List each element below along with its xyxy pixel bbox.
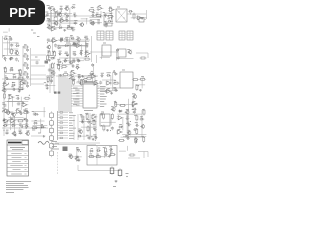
junction dot: [136, 103, 137, 104]
ground G22: [78, 159, 81, 162]
resistor R25: [58, 63, 60, 70]
capacitor C5: [66, 14, 69, 18]
label L42: [24, 53, 27, 55]
wire net W74: [78, 75, 80, 82]
label L138: [32, 129, 35, 131]
wire net W16: [105, 23, 113, 25]
label L158: [119, 123, 122, 125]
label L128: [5, 122, 8, 124]
IC left labels: [73, 88, 79, 105]
wire rail E1: [2, 127, 48, 129]
capacitor C34: [73, 53, 77, 56]
label L87: [57, 64, 60, 65]
wire net W78: [8, 98, 10, 110]
label L164: [125, 136, 128, 137]
label L90: [71, 70, 74, 72]
wire net W24: [4, 48, 18, 50]
transistor Q14: [2, 108, 6, 113]
capacitor C58: [25, 119, 29, 122]
capacitor C50: [114, 89, 118, 92]
label L156: [134, 114, 136, 116]
transistor Q20: [25, 131, 29, 136]
capacitor C21: [26, 75, 29, 79]
label L134: [26, 130, 28, 132]
resistor R34: [81, 79, 83, 86]
capacitor C62: [33, 113, 37, 116]
label L31: [108, 18, 111, 20]
resistor R26: [61, 65, 68, 67]
wire net W42: [101, 48, 103, 60]
label L103: [78, 75, 81, 76]
wire net W60: [59, 66, 61, 71]
label L154: [142, 109, 145, 111]
junction dot: [72, 44, 73, 45]
label L163: [134, 129, 137, 130]
label L81: [21, 80, 24, 82]
op-amp U2: [50, 27, 57, 31]
junction dot: [91, 136, 92, 137]
wire net W23: [3, 54, 20, 56]
resistor R11: [23, 64, 30, 66]
transistor Q8: [46, 45, 50, 50]
junction dot: [24, 119, 25, 120]
wire net W64: [102, 79, 116, 81]
label L92: [91, 70, 93, 72]
resistor R55: [88, 156, 95, 158]
junction dot: [93, 21, 94, 22]
transistor Q9: [76, 37, 80, 42]
wire net W101: [110, 118, 112, 126]
wire net W66: [112, 72, 114, 90]
resistor R4: [95, 15, 102, 17]
resistor R8: [11, 48, 13, 55]
capacitor C10: [71, 28, 75, 31]
capacitor C42: [50, 79, 53, 83]
wire net W29: [48, 40, 55, 42]
label L111: [16, 95, 19, 97]
junction dot: [19, 128, 20, 129]
label L4: [66, 6, 69, 7]
wire net W45: [136, 53, 148, 58]
junction dot: [66, 15, 67, 16]
capacitor C30: [73, 44, 77, 47]
op-amp U15: [19, 81, 26, 85]
junction dot: [62, 63, 63, 64]
PDF badge: [0, 0, 45, 25]
wire net W49: [6, 79, 25, 81]
wire net W98: [89, 119, 91, 130]
diode D23: [24, 125, 29, 127]
wire net W113: [89, 156, 111, 158]
diode D24: [33, 122, 38, 124]
header J3: [119, 31, 125, 40]
label L129: [12, 123, 15, 124]
wire net W100: [101, 121, 116, 123]
label L151: [101, 114, 103, 115]
capacitor C29: [85, 37, 89, 40]
transistor Q22: [125, 110, 129, 115]
label L106: [72, 80, 75, 81]
label L125: [23, 109, 26, 111]
label L62: [64, 52, 67, 53]
capacitor C8: [65, 19, 69, 22]
label L130: [19, 124, 22, 125]
left rail wire: [3, 93, 5, 136]
capacitor C12: [97, 21, 101, 24]
label L6: [45, 11, 48, 13]
resistor R30: [139, 78, 146, 80]
label L78: [20, 75, 22, 77]
resistor R35: [4, 93, 6, 100]
transistor Q11: [2, 88, 6, 93]
wire net W53: [46, 76, 54, 78]
pad blob 1: [54, 92, 57, 94]
label L166: [141, 136, 143, 138]
label L177: [111, 151, 113, 153]
connector pad 3: [45, 61, 49, 64]
junction dot: [83, 24, 84, 25]
label L149: [93, 135, 96, 136]
label L28: [103, 12, 105, 14]
ground G2: [92, 22, 95, 25]
label L8: [58, 12, 61, 13]
op-amp U32: [116, 130, 123, 134]
junction dot: [51, 10, 52, 11]
title block: [7, 140, 29, 176]
resistor R33: [72, 79, 74, 86]
wire net W108: [126, 113, 128, 132]
label L12: [53, 20, 56, 22]
ground G17: [14, 134, 17, 137]
label L45: [24, 80, 27, 82]
label L179: [126, 173, 129, 175]
label L20: [71, 27, 74, 28]
wire net W76: [5, 100, 29, 102]
wire net W44: [115, 50, 117, 61]
resistor R28: [113, 82, 120, 84]
junction dot: [4, 71, 5, 72]
transistor Q15: [132, 94, 136, 99]
wire net W86: [9, 117, 24, 119]
junction dot: [88, 56, 89, 57]
wire rail A3: [127, 13, 146, 15]
label L119: [133, 100, 136, 102]
capacitor C39: [117, 56, 120, 60]
junction dot: [69, 26, 70, 27]
bus line 5: [66, 77, 68, 112]
ground G9: [46, 87, 49, 90]
wire net W27: [9, 38, 11, 53]
resistor R52: [135, 137, 137, 144]
label L116: [25, 108, 28, 110]
wire net W96: [79, 120, 97, 122]
junction dot: [5, 80, 6, 81]
label L148: [86, 134, 89, 136]
junction dot: [52, 77, 53, 78]
label L39: [37, 36, 39, 38]
diode D31: [96, 149, 101, 151]
wire net W4: [47, 22, 78, 24]
label L49: [52, 50, 55, 52]
wire net W54: [46, 85, 55, 87]
capacitor C69: [111, 126, 114, 130]
connector pad 1: [60, 39, 63, 41]
wire net W88: [26, 113, 28, 129]
diode D27: [118, 110, 123, 112]
capacitor C24: [47, 39, 51, 42]
label L61: [59, 50, 62, 52]
junction dot: [115, 82, 116, 83]
wire net W90: [10, 116, 12, 130]
diode D15: [11, 84, 16, 86]
wire net W72: [94, 75, 96, 85]
label L52: [65, 36, 68, 38]
label L150: [101, 111, 104, 113]
diode D28: [140, 118, 145, 120]
junction dot: [80, 151, 81, 152]
wire net W55: [47, 75, 56, 77]
resistor R50: [136, 128, 138, 135]
label L97: [114, 80, 116, 82]
capacitor C33: [66, 53, 69, 57]
label L143: [81, 119, 84, 120]
label L93: [122, 69, 125, 71]
junction dot: [6, 39, 9, 40]
junction dot: [54, 63, 55, 64]
capacitor C72: [127, 123, 131, 126]
IC pins: [80, 86, 100, 106]
capacitor C68: [94, 136, 98, 139]
label L86: [44, 82, 46, 84]
label L67: [64, 58, 67, 59]
transistor Q21: [78, 129, 82, 134]
wire net W92: [33, 124, 48, 126]
label L46: [35, 56, 38, 58]
wire net W7: [56, 10, 58, 25]
diode D4: [128, 10, 133, 12]
wire net W20: [145, 10, 147, 19]
label L66: [57, 59, 60, 60]
label L3: [60, 5, 63, 7]
wire rail B4: [57, 45, 88, 47]
op-amp U26: [131, 102, 138, 106]
transistor Q25: [68, 154, 72, 159]
label L146: [78, 129, 80, 130]
wire net W39: [70, 43, 72, 61]
wire net W94: [40, 119, 42, 133]
resistor R46: [111, 113, 113, 120]
wire net W13: [90, 18, 100, 20]
wire net W93: [31, 120, 44, 122]
label L109: [95, 81, 98, 82]
junction dot: [18, 70, 19, 71]
label L172: [103, 147, 105, 149]
diode D12: [71, 61, 76, 63]
label L165: [134, 138, 137, 139]
wire net W99: [89, 120, 91, 137]
junction dot: [83, 79, 84, 80]
pad blob 2: [58, 92, 61, 94]
label L169: [76, 156, 79, 157]
resistor R53: [143, 136, 145, 143]
stub wire y66: [31, 65, 45, 67]
junction dot: [26, 128, 27, 129]
label L147: [93, 127, 96, 128]
wire net W110: [58, 143, 96, 145]
bus line 3: [62, 76, 64, 112]
label L117: [132, 93, 135, 95]
capacitor C9: [74, 21, 77, 25]
capacitor C25: [54, 44, 57, 48]
capacitor C32: [58, 52, 62, 55]
label L120: [111, 106, 114, 108]
wire net W111: [71, 156, 82, 158]
capacitor C54: [17, 102, 21, 105]
op-amp U19: [105, 89, 112, 93]
relay U30: [100, 114, 110, 126]
label L102: [70, 74, 73, 76]
wire net W10: [81, 18, 88, 20]
electrolytic C78: [110, 166, 114, 175]
resistor R6: [105, 21, 107, 28]
label L26: [97, 19, 100, 21]
label L82: [2, 88, 4, 89]
ground G21: [135, 140, 138, 143]
capacitor C26: [59, 39, 63, 42]
wire net W65: [110, 75, 112, 85]
label L122: [6, 109, 9, 111]
ground G15: [8, 111, 11, 114]
ground G23: [108, 155, 111, 158]
op-amp U8: [51, 39, 58, 43]
transistor Q2: [57, 12, 61, 17]
capacitor C55: [25, 110, 29, 113]
ground G19: [92, 138, 95, 141]
diode D22: [11, 124, 16, 126]
resistor R32: [86, 77, 93, 79]
ground G3: [105, 23, 108, 26]
junction dot: [91, 155, 92, 156]
wire net W119: [119, 150, 126, 152]
junction dot: [56, 21, 57, 22]
label L131: [25, 124, 27, 125]
wire net W46: [5, 72, 21, 74]
resistor R21: [17, 77, 24, 79]
label L22: [99, 5, 101, 7]
label L126: [10, 118, 13, 119]
wire net W85: [4, 124, 28, 126]
junction dot: [101, 125, 102, 126]
wire net W117: [78, 170, 120, 172]
label L152: [126, 109, 129, 111]
junction dot: [60, 13, 61, 14]
label L13: [61, 18, 63, 19]
capacitor C35: [79, 52, 83, 55]
label L14: [65, 18, 68, 19]
label L73: [4, 67, 6, 68]
label L171: [98, 147, 100, 149]
label L115: [16, 108, 19, 110]
capacitor C16: [3, 57, 7, 60]
junction dot: [107, 72, 108, 73]
capacitor C11: [91, 14, 95, 17]
op-amp U25: [15, 109, 22, 113]
diode D6: [15, 45, 20, 47]
label L104: [88, 75, 91, 77]
wire net W11: [86, 18, 88, 24]
label L83: [11, 86, 14, 88]
ladder rail right: [30, 48, 32, 86]
capacitor C67: [88, 136, 91, 140]
wire net W33: [62, 44, 83, 46]
label L72: [127, 49, 130, 51]
diode D16: [75, 66, 80, 68]
junction dot: [49, 19, 50, 20]
wire rail A2: [46, 20, 90, 22]
wire net W95: [82, 135, 93, 137]
wire net W35: [64, 41, 89, 43]
junction dot: [69, 78, 70, 79]
junction dot: [137, 139, 138, 140]
diode D18: [106, 74, 111, 76]
label L123: [11, 112, 14, 113]
label L10: [74, 12, 76, 14]
wire net W48: [4, 88, 25, 90]
junction dot: [60, 20, 61, 21]
junction dot: [138, 85, 139, 86]
label L95: [108, 72, 111, 74]
label L38: [33, 32, 36, 34]
capacitor C74: [126, 137, 130, 140]
ground G8: [18, 90, 21, 93]
capacitor C23: [36, 61, 39, 65]
IC U20: [83, 84, 97, 108]
label L121: [132, 106, 134, 108]
diode D21: [3, 124, 8, 126]
wire net W104: [122, 133, 146, 135]
ground G12: [110, 92, 113, 95]
wire net W68: [141, 77, 143, 88]
transistor Q13: [70, 76, 74, 81]
transistor Q26: [75, 156, 79, 161]
wire net W21: [3, 31, 8, 33]
op-amp U18: [105, 81, 112, 85]
wire net W41: [100, 56, 110, 58]
wire net W15: [100, 11, 102, 18]
wire net W122: [138, 152, 148, 158]
resistor R57: [109, 154, 116, 156]
capacitor C7: [48, 20, 52, 23]
label L108: [84, 78, 87, 80]
label L176: [105, 151, 108, 153]
dashed line: [57, 152, 59, 175]
wire net W37: [84, 40, 86, 54]
op-amp U1: [59, 19, 66, 23]
label L24: [96, 13, 99, 14]
wire rail C2: [56, 75, 98, 77]
label L65: [85, 51, 88, 52]
label L98: [107, 89, 110, 90]
label L80: [12, 81, 15, 83]
wire net W120: [126, 146, 128, 151]
IC pin hook wires: [71, 86, 80, 106]
wire rail B2: [90, 51, 118, 53]
label L9: [64, 13, 67, 14]
op-amp U10: [84, 52, 91, 56]
op-amp U4: [108, 8, 115, 12]
label L1: [47, 5, 50, 7]
transistor Q24: [127, 131, 131, 136]
